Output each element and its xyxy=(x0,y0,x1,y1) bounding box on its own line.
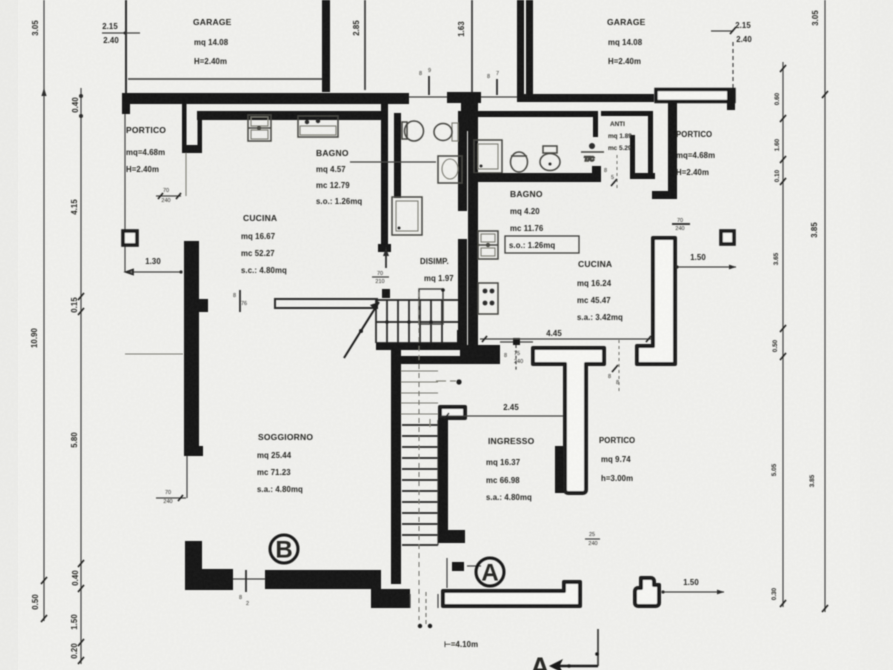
cucina B stove xyxy=(478,283,498,314)
cucina B width dim 4.45 xyxy=(480,329,651,342)
door line at bagno A top opening xyxy=(409,96,447,98)
top-left dimension 2.15/2.40 xyxy=(102,22,140,45)
tiny dim 8/2 under portico S opening xyxy=(239,570,249,607)
top wall east segment 1 xyxy=(517,94,654,102)
bottom door dots xyxy=(418,624,432,628)
portico A label xyxy=(126,125,166,174)
bagno B bottom wall end step xyxy=(592,166,601,182)
portico lower pillar xyxy=(635,578,659,606)
tiny dim 25/240 near T stem xyxy=(585,532,600,547)
portico B pillar xyxy=(721,231,734,244)
garage B label xyxy=(607,17,646,66)
portico B tiny dim 240 xyxy=(672,218,690,232)
stairs newel post xyxy=(382,289,390,298)
soggiorno faint dim line xyxy=(125,353,183,355)
top wall east segment 2 (portico B front, hollow) xyxy=(656,90,734,102)
bagno A door dim 2.10 xyxy=(372,247,389,285)
stairwell west wall xyxy=(391,348,401,584)
garage party wall (double) xyxy=(517,0,524,97)
garage A label xyxy=(193,17,232,66)
top-right dimension 2.15/2.40 xyxy=(711,21,752,89)
cucina A east wall xyxy=(381,104,388,244)
right outer dimension chain 3.05/3.85 xyxy=(809,0,828,612)
left outer dimension chain 3.05/10.90/0.50 xyxy=(30,0,47,622)
right inner dimension chain 0.60/1.60/0.10/3.65/0.50/0.30 xyxy=(771,62,786,607)
jamb thin lines xyxy=(447,558,481,588)
top wall east end cap xyxy=(727,89,735,110)
bagno B door jamb stub xyxy=(593,111,598,137)
door jamb stub xyxy=(452,562,464,571)
portico A width dim 1.30 xyxy=(126,257,183,274)
bagno B top wall xyxy=(478,111,593,117)
bagno B label boxed xyxy=(505,189,579,253)
soggiorno west wall bump xyxy=(199,299,208,312)
stair side wall L stub (hollow) xyxy=(440,407,465,418)
top wall west segment (portico A + garage A front) xyxy=(124,93,409,104)
tiny dim 8/9 left of center xyxy=(419,68,431,95)
top wall west end cap xyxy=(122,93,130,114)
cucina A tiny dim 8/9 xyxy=(233,290,247,312)
portico S opening line xyxy=(233,578,265,580)
door line at gap 481-517 xyxy=(481,96,517,98)
cucina A peninsula bar xyxy=(275,299,377,308)
ingresso east T wall (hollow) xyxy=(533,348,604,493)
tiny dim 8/8 right of T wall xyxy=(608,340,619,394)
bagno A washbasin xyxy=(438,156,462,183)
soggiorno west wall bottom cap xyxy=(184,446,203,456)
bagno A bidet xyxy=(434,123,458,141)
bottom wall main (hollow) xyxy=(443,582,580,606)
ingresso door line + hinge xyxy=(500,338,533,370)
portico A pillar xyxy=(123,231,137,245)
stairs lower flight treads xyxy=(402,420,438,545)
cucina A east wall foot xyxy=(378,244,391,252)
anti east wall xyxy=(648,111,653,178)
portico B width dim 1.50 xyxy=(675,253,736,269)
disimp label xyxy=(420,257,454,283)
cucina B sink unit xyxy=(478,231,498,259)
bagno A shower xyxy=(392,197,422,235)
bagno A east wall corner piece xyxy=(457,330,466,350)
soggiorno west wall xyxy=(184,241,199,456)
garage A door line xyxy=(128,78,322,80)
ingresso top wall jamb block xyxy=(460,345,500,364)
bagno A west wall xyxy=(394,113,401,198)
stair side wall vertical xyxy=(438,418,448,543)
ingresso width dim 2.45 xyxy=(441,403,579,419)
circled A mark xyxy=(476,558,504,587)
portico lower label xyxy=(599,436,635,483)
cucina A top wall xyxy=(197,111,382,120)
stairs center dashed line xyxy=(418,292,420,620)
tiny dim 8/75 at ingresso door xyxy=(504,351,523,365)
bagno A toilet xyxy=(402,121,424,141)
party wall A/B xyxy=(468,103,478,345)
bagno A east wall lower xyxy=(458,239,467,345)
portico B pier xyxy=(652,102,677,199)
portico A door dim 70/240 xyxy=(156,188,181,204)
bagno A label with leader xyxy=(316,148,436,206)
garage A left side line xyxy=(125,0,127,95)
left inner dimension chain 0.40/4.15/0.15/5.80/0.40/1.50/0.20 xyxy=(70,88,84,664)
section cut arrow A xyxy=(530,629,599,670)
stairs lower flight (faint upper part) xyxy=(401,371,462,414)
portico SW corner L wall xyxy=(185,541,233,590)
ingresso faint door marks xyxy=(430,381,456,427)
circled B mark xyxy=(270,535,298,564)
anti top wall xyxy=(601,111,652,116)
top wall center T piece xyxy=(447,92,481,103)
portico A pier wall xyxy=(182,104,202,196)
soggiorno opening dim 70/240 xyxy=(156,456,187,505)
ingresso label xyxy=(486,436,535,502)
ingresso top wall west segment xyxy=(398,356,460,364)
soggiorno bottom wall xyxy=(265,570,381,589)
driveway boundary line 1.63 xyxy=(471,0,473,95)
bagno B toilet xyxy=(540,146,560,171)
bagno B washbasin T/C xyxy=(581,143,604,163)
stair side wall foot xyxy=(448,530,465,543)
anti door tiny dim xyxy=(604,155,617,190)
portico A left edge line xyxy=(124,114,126,272)
anti closet L wall xyxy=(630,135,655,179)
cucina A label xyxy=(241,213,287,275)
wall under upper flight xyxy=(376,343,464,350)
cucina A sink unit xyxy=(248,115,271,141)
top wall center T stem xyxy=(461,103,478,131)
cucina A stove xyxy=(298,116,338,137)
portico B label xyxy=(676,130,715,177)
driveway boundary line 2.85 xyxy=(364,0,366,90)
portico lower dim 1.50 xyxy=(661,578,724,594)
ingresso east door leaf xyxy=(555,446,565,493)
soggiorno label xyxy=(257,432,313,494)
bagno B bottom wall xyxy=(472,173,600,182)
bottom wall west door corner xyxy=(371,583,410,608)
garage A right wall xyxy=(322,0,330,92)
bagno A east wall upper xyxy=(458,111,467,211)
stairs landing square xyxy=(419,289,443,324)
cucina B east wall (hollow) xyxy=(637,238,675,364)
anti label xyxy=(608,121,632,152)
cucina B label xyxy=(577,259,623,322)
stairs upper flight xyxy=(376,300,461,343)
bagno B shower xyxy=(474,140,502,173)
bagno B bidet xyxy=(511,152,528,172)
bottom door opening lines xyxy=(410,592,438,624)
stairs up arrow xyxy=(344,302,379,358)
tiny dim 8/7 right of center xyxy=(487,71,499,95)
